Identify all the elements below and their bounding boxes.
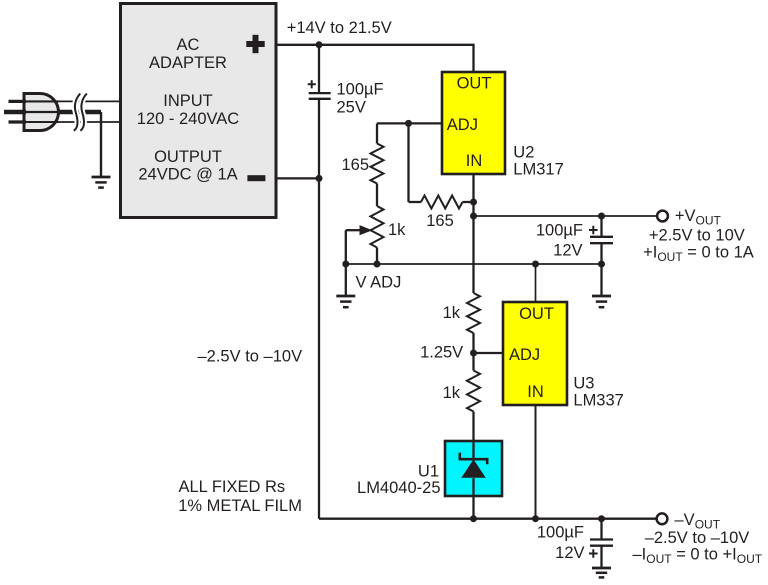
wire 1k to U1 <box>472 412 474 442</box>
svg-text:1k: 1k <box>443 384 461 402</box>
zener U1 LM4040-25 box <box>445 441 502 496</box>
node junction wiper/gnd <box>342 261 349 268</box>
wire ADJ branch down <box>407 123 409 202</box>
wire plug ground drop <box>100 112 102 176</box>
resistor 1k (bottom) <box>467 371 480 412</box>
svg-text:120 - 240VAC: 120 - 240VAC <box>137 110 240 128</box>
svg-text:OUT: OUT <box>519 305 554 323</box>
node junction pot bottom <box>374 261 381 268</box>
ground (V ADJ) <box>336 264 355 307</box>
cable break squiggle <box>74 94 80 131</box>
svg-text:AC: AC <box>177 36 200 54</box>
resistor 165 (horizontal) <box>409 196 474 209</box>
AC plug prong top <box>9 100 27 103</box>
svg-text:25V: 25V <box>337 99 366 117</box>
svg-text:1% METAL FILM: 1% METAL FILM <box>178 497 302 515</box>
node junction C2 top <box>598 213 605 220</box>
svg-text:165: 165 <box>426 212 454 230</box>
node junction top rail <box>316 41 323 48</box>
svg-text:ALL FIXED Rs: ALL FIXED Rs <box>179 478 286 496</box>
node junction U3 IN/rail <box>532 515 539 522</box>
AC adapter minus terminal <box>247 175 265 181</box>
wire plug line bottom <box>25 121 59 123</box>
terminal +VOUT <box>657 211 668 222</box>
wire bottom rail <box>319 518 656 520</box>
svg-text:LM4040-25: LM4040-25 <box>357 479 440 497</box>
regulator U3 LM337 box <box>503 302 567 405</box>
svg-text:INPUT: INPUT <box>163 92 213 110</box>
wire +14V rail <box>276 45 474 72</box>
svg-text:U2: U2 <box>513 143 534 161</box>
svg-text:IN: IN <box>527 383 544 401</box>
node junction +VOUT branch <box>470 213 477 220</box>
wire U2 ADJ pin <box>377 122 442 124</box>
svg-text:24VDC @ 1A: 24VDC @ 1A <box>138 166 237 184</box>
ground (C3) <box>592 568 611 577</box>
node junction 165/IN <box>470 199 477 206</box>
svg-text:–2.5V to –10V: –2.5V to –10V <box>198 347 303 365</box>
svg-text:+2.5V to 10V: +2.5V to 10V <box>649 227 745 245</box>
svg-text:+14V to 21.5V: +14V to 21.5V <box>287 19 392 37</box>
svg-text:–2.5V to –10V: –2.5V to –10V <box>645 529 750 547</box>
node 1.25V junction <box>470 350 477 357</box>
AC adapter PS1 box <box>121 4 277 218</box>
wire +VOUT rail <box>474 215 657 217</box>
wire U3 ADJ pin <box>474 352 504 354</box>
node junction C3/rail <box>598 515 605 522</box>
potentiometer 1k <box>346 206 384 264</box>
svg-text:LM317: LM317 <box>513 160 563 178</box>
wire plug line top <box>25 100 59 102</box>
svg-text:LM337: LM337 <box>573 392 623 410</box>
capacitor C1 100uF 25V <box>308 45 331 179</box>
svg-text:100µF: 100µF <box>536 221 583 239</box>
regulator U2 LM317 box <box>442 72 505 174</box>
svg-text:1k: 1k <box>388 221 406 239</box>
svg-text:100µF: 100µF <box>537 523 584 541</box>
svg-text:1k: 1k <box>443 304 461 322</box>
svg-text:165: 165 <box>341 156 369 174</box>
svg-text:V ADJ: V ADJ <box>356 274 402 292</box>
wire minus rail <box>276 177 319 179</box>
resistor 1k (top) <box>467 293 480 333</box>
svg-text:OUTPUT: OUTPUT <box>154 148 222 166</box>
AC adapter plus terminal <box>246 35 264 53</box>
zener diode wire bottom <box>472 478 474 519</box>
svg-text:OUT: OUT <box>457 75 492 93</box>
wire between 1k resistors <box>472 333 474 371</box>
svg-text:1.25V: 1.25V <box>420 344 463 362</box>
wire U3 OUT pin <box>535 264 537 302</box>
wire plug neutral thick <box>25 111 59 113</box>
AC plug prong middle <box>4 110 26 114</box>
ground (plug earth) <box>92 177 111 188</box>
node junction C2 bottom <box>598 261 605 268</box>
AC plug prong bottom <box>9 120 27 123</box>
svg-text:U1: U1 <box>418 462 439 480</box>
wire left main vertical <box>318 178 320 518</box>
node junction ADJ <box>405 120 412 127</box>
resistor 165 (vertical) <box>371 123 384 206</box>
node junction U3 OUT <box>532 261 539 268</box>
ground (C2) <box>592 264 611 307</box>
terminal -VOUT <box>657 513 668 524</box>
zener cathode bar <box>460 453 487 465</box>
capacitor C2 100uF 12V <box>589 216 613 264</box>
node junction zener/rail <box>470 515 477 522</box>
svg-text:ADAPTER: ADAPTER <box>149 54 227 72</box>
svg-text:IN: IN <box>466 152 483 170</box>
capacitor C3 100uF 12V (bottom) <box>589 519 613 567</box>
AC plug P1 body <box>24 94 59 131</box>
svg-text:U3: U3 <box>573 375 594 393</box>
wire U3 IN pin <box>535 405 537 519</box>
svg-text:ADJ: ADJ <box>447 116 478 134</box>
svg-text:12V: 12V <box>553 242 582 260</box>
svg-text:100µF: 100µF <box>337 81 384 99</box>
svg-text:12V: 12V <box>555 544 584 562</box>
zener diode triangle <box>461 459 485 477</box>
wire U2 IN pin down <box>472 174 474 293</box>
node junction minus rail <box>316 175 323 182</box>
wire V ADJ rail <box>346 263 602 265</box>
svg-text:ADJ: ADJ <box>509 346 540 364</box>
zener diode wire top <box>472 441 474 459</box>
